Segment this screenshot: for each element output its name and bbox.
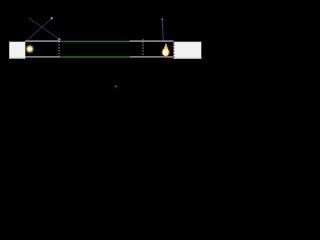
tube bottom line right gray section [130,56,174,57]
green tube top line [60,41,130,43]
dashed divider right at x=173.4 [173,42,175,58]
lamp housing left box [9,42,25,59]
dashed divider mid-right at x=143 [142,42,144,57]
string right vertical [162,20,163,42]
flame tip pink [165,43,167,47]
pivot dot at green tube top-left [58,38,61,41]
yellow bead top-left [51,17,53,19]
tube bottom line left gray section [25,56,60,57]
tube top line left gray section [25,40,60,41]
bulb glow halo [25,44,35,54]
bulb bright core [28,47,31,50]
string left ascending [25,18,51,42]
flame white center [163,49,169,55]
green particle glow [114,85,118,89]
dim dot above divider [142,39,144,41]
string left descending [29,18,60,40]
flame body teardrop [163,43,168,56]
tube top line right gray section [130,40,174,41]
yellow tip right string [161,18,163,20]
dashed divider left at x=59 [58,41,60,57]
flame outer glow [159,45,172,58]
right white box [174,42,202,59]
green tube bottom line [60,56,130,58]
flame inner core [162,48,170,57]
